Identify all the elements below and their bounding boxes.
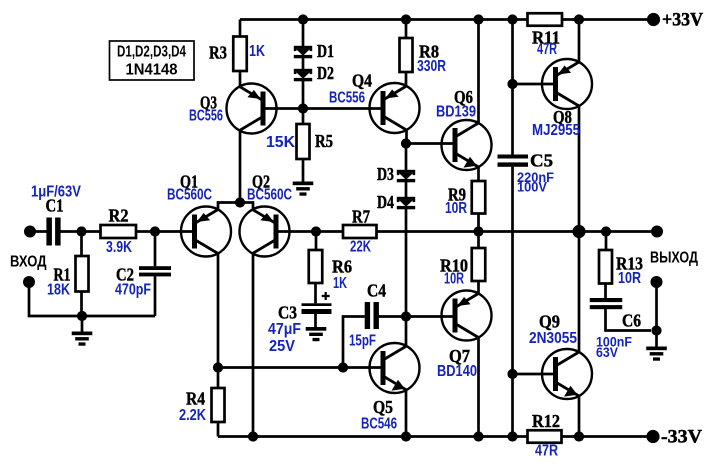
ground below C3	[306, 327, 327, 341]
node R13 junction	[601, 226, 611, 236]
wire C2 top	[154, 232, 157, 267]
svg-text:ВЫХОД: ВЫХОД	[650, 250, 698, 267]
node C5 column on top rail	[507, 14, 517, 24]
wire tail emitters	[218, 203, 253, 210]
svg-text:D1,D2,D3,D4: D1,D2,D3,D4	[117, 44, 186, 61]
wire to R7	[316, 230, 343, 233]
svg-text:BC546: BC546	[361, 416, 397, 433]
wire D3 to D4	[405, 182, 408, 197]
svg-text:10R: 10R	[444, 271, 464, 288]
wire to R13	[605, 232, 608, 251]
wire R9 to output line	[477, 214, 480, 232]
ground at output	[646, 347, 667, 361]
wire output line	[377, 230, 652, 233]
resistor R13 body	[599, 250, 612, 284]
node Q9 emitter on bottom rail	[574, 431, 584, 441]
wire Q2 collector down	[252, 254, 255, 437]
svg-text:47μF: 47μF	[268, 321, 301, 338]
svg-text:18K: 18K	[47, 282, 71, 299]
wire Q1 collector to Q5 base	[218, 366, 383, 369]
svg-text:22K: 22K	[350, 239, 372, 256]
node output ground terminal	[651, 276, 663, 288]
diode D1 1N4148	[294, 46, 312, 59]
ground below R1	[72, 332, 93, 346]
wire input to C1	[30, 230, 47, 233]
wire Q5 collector	[405, 317, 408, 347]
transistor Q4 BC556	[370, 83, 420, 133]
svg-text:+33V: +33V	[662, 11, 704, 31]
resistor R11 body	[528, 13, 563, 26]
svg-text:BC560C: BC560C	[247, 187, 292, 204]
svg-text:BC556: BC556	[189, 108, 223, 125]
node output ground junction	[651, 325, 661, 335]
svg-text:3.9K: 3.9K	[106, 239, 133, 256]
resistor R7 body	[343, 225, 377, 238]
svg-text:C4: C4	[367, 281, 386, 301]
svg-text:R4: R4	[186, 389, 205, 409]
svg-text:MJ2955: MJ2955	[532, 122, 580, 139]
transistor Q9 2N3055	[542, 349, 592, 399]
svg-text:C6: C6	[622, 311, 641, 331]
wire D2 to R5	[302, 81, 305, 124]
wire rail to D1	[302, 20, 305, 47]
wire Q8 base	[513, 83, 556, 86]
svg-text:C5: C5	[530, 151, 553, 171]
wire R1 bottom	[80, 292, 83, 317]
wire Q9 base	[513, 373, 556, 376]
node D1 on top rail	[298, 14, 308, 24]
transistor Q5 BC546	[370, 343, 420, 393]
wire top rail left section	[240, 18, 528, 21]
node C1/R1/R2 junction	[76, 226, 86, 236]
resistor R8 body	[400, 38, 413, 72]
node D2/R5/base junction	[298, 103, 308, 113]
svg-text:2.2K: 2.2K	[179, 407, 207, 424]
svg-text:BD140: BD140	[437, 363, 477, 380]
resistor R5 body	[297, 124, 310, 159]
svg-text:R6: R6	[332, 257, 352, 277]
svg-text:R5: R5	[315, 131, 333, 151]
node Q8 emitter on rail	[574, 14, 584, 24]
svg-text:D1: D1	[317, 41, 334, 61]
diode D4 1N4148	[397, 197, 415, 209]
wire Q4 collector	[405, 130, 408, 144]
svg-text:470pF: 470pF	[115, 282, 151, 299]
svg-text:330R: 330R	[417, 58, 446, 75]
svg-text:1N4148: 1N4148	[126, 62, 178, 79]
svg-text:15pF: 15pF	[349, 333, 376, 350]
svg-text:BC560C: BC560C	[167, 187, 212, 204]
wire Q7 collector down	[477, 338, 480, 437]
node -33V terminal	[646, 430, 659, 443]
wire C4 left branch	[343, 317, 365, 368]
svg-text:-33V: -33V	[661, 428, 703, 448]
wire rail to R3	[239, 20, 242, 37]
wire rail to R8	[405, 20, 408, 39]
resistor R4 body	[212, 388, 225, 422]
capacitor C2 plates	[139, 266, 171, 276]
wire Q5 emitter	[405, 390, 408, 437]
transistor Q8 MJ2955	[542, 59, 592, 109]
node ground junction	[77, 311, 87, 321]
wire to R10	[477, 232, 480, 249]
wire to D3	[405, 144, 408, 171]
wire rail to C5	[511, 20, 514, 155]
node Q6 collector on rail	[473, 14, 483, 24]
node output terminal	[651, 226, 663, 238]
wire to R1 top	[80, 232, 83, 257]
wire to R6	[315, 232, 318, 251]
svg-text:D4: D4	[377, 192, 394, 212]
diode D2 1N4148	[294, 69, 312, 82]
wire Q8 emitter up	[578, 20, 581, 63]
svg-text:R12: R12	[532, 411, 560, 431]
resistor R1 body	[76, 256, 89, 292]
wire D1 to D2	[302, 58, 305, 69]
resistor R12 body	[528, 430, 562, 443]
wire C1 to R2	[61, 230, 101, 233]
wire output ground terminal down	[655, 282, 658, 331]
node tail junction	[235, 197, 245, 207]
node feedback junction	[311, 226, 321, 236]
svg-text:25V: 25V	[269, 338, 296, 355]
node R12 left junction	[507, 431, 517, 441]
transistor Q3 BC556	[227, 84, 277, 134]
svg-text:C3: C3	[278, 303, 297, 323]
svg-text:1K: 1K	[249, 43, 266, 60]
node Q9 base junction	[507, 369, 517, 379]
ground below R5	[293, 182, 314, 196]
wire R3 to Q3 emitter	[239, 71, 242, 87]
wire Q3 base / D2 node / Q4 base	[263, 107, 383, 110]
wire C6 to ground node	[606, 308, 652, 331]
wire Q9 emitter down	[578, 396, 581, 437]
wire to Q6 base	[406, 142, 455, 145]
capacitor C1 plates	[46, 218, 60, 246]
wire Q1 collector down	[217, 254, 220, 368]
svg-text:D2: D2	[317, 63, 334, 83]
svg-text:Q4: Q4	[352, 71, 372, 91]
capacitor C6 plates	[590, 298, 623, 309]
svg-text:2N3055: 2N3055	[529, 330, 577, 347]
wire to R4	[217, 368, 220, 389]
resistor R2 body	[101, 225, 137, 238]
capacitor C5 plates	[498, 155, 529, 167]
svg-text:BD139: BD139	[436, 104, 476, 121]
node input terminal	[24, 226, 36, 238]
note box D1-D4 1N4148	[110, 41, 195, 80]
svg-text:BC556: BC556	[329, 90, 365, 107]
svg-text:10R: 10R	[445, 200, 467, 217]
wire D4 down to Q7 base node	[405, 209, 408, 317]
node R9/R10 output junction	[473, 226, 483, 236]
resistor R6 body	[309, 250, 323, 283]
svg-text:ВХОД: ВХОД	[10, 254, 47, 271]
transistor Q6 BD139	[442, 120, 492, 170]
svg-text:63V: 63V	[596, 345, 618, 360]
wire C5 bottom down to bottom rail	[511, 167, 514, 437]
transistor Q7 BD140	[442, 291, 492, 341]
wire Q6 emitter to R9	[477, 167, 480, 181]
wire Q3 collector to tail	[239, 131, 242, 203]
wire bottom rail left section	[218, 435, 528, 438]
wire R5 to ground	[302, 159, 305, 182]
wire C3 to ground	[314, 314, 317, 327]
svg-text:R3: R3	[209, 43, 227, 63]
wire Q9 collector to output	[578, 232, 581, 353]
wire R8 to Q4 emitter	[405, 72, 408, 86]
diode D3 1N4148	[397, 170, 415, 182]
wire Q2 base to feedback node	[276, 230, 316, 233]
svg-text:47R: 47R	[535, 443, 558, 460]
svg-text:R2: R2	[109, 206, 129, 226]
svg-text:47R: 47R	[537, 41, 557, 58]
resistor R9 body	[472, 181, 486, 214]
wire R4 to bottom rail	[217, 422, 220, 437]
svg-text:Q9: Q9	[539, 312, 560, 332]
node +33V terminal	[647, 13, 660, 26]
svg-text:15K: 15K	[266, 134, 296, 151]
wire input ground run	[29, 282, 155, 316]
node Q2 collector on bottom rail	[248, 431, 258, 441]
node Q5 base junction	[338, 362, 348, 372]
node input ground terminal	[23, 276, 35, 288]
svg-text:D3: D3	[377, 164, 394, 184]
svg-text:Q5: Q5	[373, 397, 393, 417]
node output junction	[572, 225, 585, 238]
transistor Q2 BC560C	[240, 207, 290, 257]
node R2/C2/Q1-base junction	[150, 226, 160, 236]
resistor R3 body	[233, 37, 247, 72]
node Q5 emitter on bottom rail	[401, 431, 411, 441]
node R4/Q1-collector junction	[213, 362, 223, 372]
wire to output ground symbol	[655, 331, 658, 347]
svg-text:10R: 10R	[618, 270, 641, 287]
capacitor C3 polarity plus	[322, 292, 330, 300]
wire Q6 collector up	[477, 20, 480, 124]
transistor Q1 BC560C	[181, 207, 231, 257]
wire to ground symbol	[81, 316, 84, 332]
node C4/D4/Q5/Q7 junction	[401, 311, 411, 321]
node Q7 collector on bottom rail	[473, 431, 483, 441]
capacitor C4 plates	[365, 302, 379, 329]
svg-text:R7: R7	[352, 207, 370, 227]
svg-text:1μF/63V: 1μF/63V	[31, 184, 82, 201]
wire bottom rail right section	[562, 435, 651, 438]
wire R13 to C6	[604, 284, 607, 299]
wire C4 right plate to node	[379, 315, 406, 318]
wire C2 bottom	[154, 276, 157, 316]
node Q4-collector/D3/Q6-base junction	[401, 138, 411, 148]
wire R2 to Q1 base	[136, 230, 195, 233]
node Q8 base junction	[507, 79, 517, 89]
node R8 on top rail	[401, 14, 411, 24]
svg-text:1K: 1K	[333, 275, 348, 292]
wire top rail right section	[562, 18, 653, 21]
wire Q8 collector to output	[578, 106, 581, 232]
wire R6 to C3	[314, 283, 317, 303]
wire R10 to Q7 emitter	[477, 281, 480, 294]
wire Q7 base	[406, 315, 455, 318]
svg-text:100V: 100V	[517, 180, 547, 195]
capacitor C3 plates	[302, 303, 332, 314]
resistor R10 body	[472, 248, 486, 281]
